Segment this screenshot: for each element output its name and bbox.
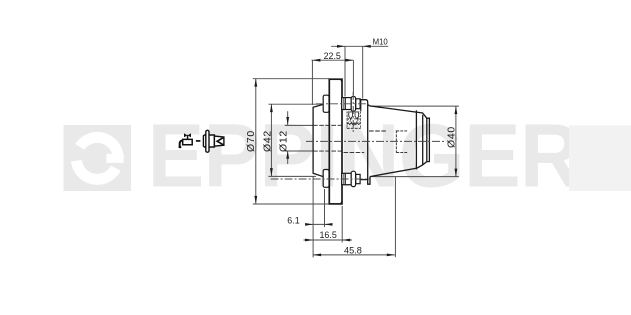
svg-text:22.5: 22.5 [324,51,341,61]
svg-text:Ø70: Ø70 [245,130,257,152]
svg-text:Ø12: Ø12 [278,130,290,152]
svg-text:EPPINGER: EPPINGER [148,105,581,206]
svg-text:Ø40: Ø40 [446,126,458,148]
svg-text:Ø42: Ø42 [262,130,274,152]
svg-text:M10: M10 [373,38,389,47]
svg-text:45.8: 45.8 [344,245,362,255]
svg-text:16.5: 16.5 [320,230,337,240]
svg-text:6.1: 6.1 [287,215,299,225]
